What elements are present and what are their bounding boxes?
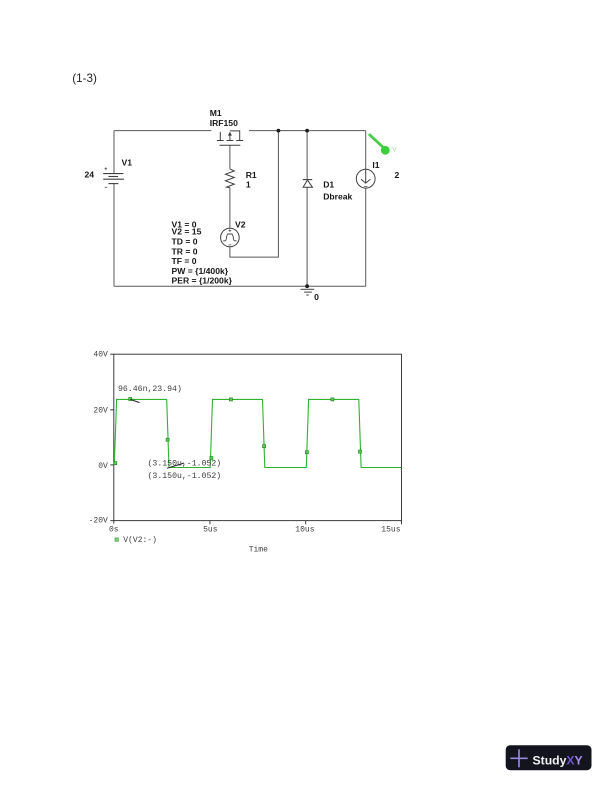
svg-text:TD = 0: TD = 0 [172,237,198,247]
svg-text:24: 24 [85,170,95,180]
svg-text:V2 = 15: V2 = 15 [172,227,202,237]
svg-text:96.46n,23.94): 96.46n,23.94) [118,384,182,394]
svg-text:20V: 20V [93,407,108,416]
svg-text:TF = 0: TF = 0 [172,256,197,266]
svg-text:TR = 0: TR = 0 [172,247,198,257]
svg-text:(3.150u,-1.052): (3.150u,-1.052) [148,471,222,481]
svg-text:10us: 10us [295,526,314,535]
svg-text:Time: Time [249,546,268,555]
svg-text:V1: V1 [122,158,133,168]
svg-text:0V: 0V [98,462,108,471]
svg-text:M1: M1 [210,108,222,118]
svg-text:0s: 0s [109,526,119,535]
svg-text:PER = {1/200k}: PER = {1/200k} [172,276,233,286]
svg-text:Dbreak: Dbreak [323,192,352,202]
svg-text:V(V2:-): V(V2:-) [123,536,157,545]
svg-text:1: 1 [246,180,251,190]
svg-text:IRF150: IRF150 [210,118,238,128]
svg-text:(1-3): (1-3) [72,72,97,85]
svg-text:V2: V2 [235,219,246,229]
svg-text:15us: 15us [381,526,400,535]
svg-text:D1: D1 [323,180,334,190]
svg-text:(3.150u,-1.052): (3.150u,-1.052) [148,458,222,468]
svg-text:StudyXY: StudyXY [533,754,583,768]
svg-text:V: V [392,146,397,153]
svg-text:I1: I1 [372,160,379,170]
svg-text:40V: 40V [93,351,108,360]
svg-text:0: 0 [314,292,319,302]
svg-text:R1: R1 [246,170,257,180]
svg-text:5us: 5us [203,526,218,535]
svg-text:-20V: -20V [89,516,108,525]
svg-text:2: 2 [395,170,400,180]
